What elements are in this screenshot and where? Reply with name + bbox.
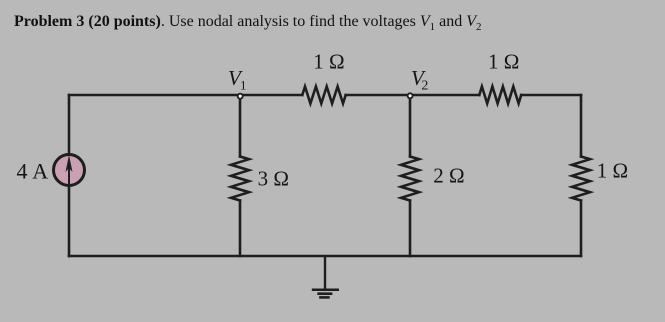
svg-text:2: 2 [421, 79, 428, 94]
resistor R3 3ohm vertical zigzag [231, 157, 249, 201]
resistor R2 1ohm horizontal zigzag [479, 87, 521, 104]
svg-text:3 Ω: 3 Ω [258, 167, 289, 191]
node V1 [238, 94, 243, 99]
svg-text:2 Ω: 2 Ω [433, 164, 464, 188]
svg-text:1 Ω: 1 Ω [488, 49, 519, 73]
current source arrow [68, 161, 70, 186]
wire V1 branch upper [239, 95, 242, 157]
resistor R4 2ohm vertical zigzag [401, 157, 419, 201]
wire bottom [69, 255, 581, 258]
wire top-mid segment [346, 94, 480, 97]
wire top-left segment [69, 94, 302, 97]
wire V2 branch upper [409, 95, 412, 157]
wire V2 branch lower [409, 201, 412, 257]
current source I1 circle [54, 155, 85, 186]
ground [312, 256, 339, 297]
resistor R1 1ohm horizontal zigzag [302, 87, 345, 104]
node V2 [408, 93, 413, 98]
wire left branch upper [68, 95, 71, 154]
resistor R5 1ohm vertical zigzag [572, 157, 590, 201]
wire top-right segment [521, 94, 581, 97]
svg-text:A: A [32, 158, 48, 183]
wire right branch lower [580, 201, 583, 257]
svg-text:1: 1 [240, 78, 247, 93]
wire right branch upper [580, 95, 583, 157]
svg-text:1 Ω: 1 Ω [597, 159, 628, 183]
svg-text:1 Ω: 1 Ω [313, 49, 344, 73]
wire V1 branch lower [239, 201, 242, 257]
svg-text:4: 4 [17, 158, 28, 183]
wire left branch lower [68, 187, 71, 257]
title text [14, 13, 482, 33]
